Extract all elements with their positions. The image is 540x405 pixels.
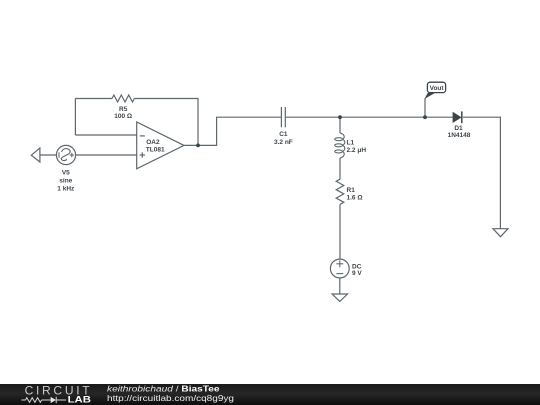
source VS plus bbox=[70, 154, 74, 156]
svg-text:1N4148: 1N4148 bbox=[448, 132, 471, 139]
wire (feedback left vertical) bbox=[74, 99, 76, 136]
resistor R1 bbox=[336, 179, 344, 204]
svg-text:LAB: LAB bbox=[68, 394, 92, 404]
wire (Vout stem) bbox=[424, 98, 426, 117]
wire (op-amp output) bbox=[184, 117, 281, 145]
svg-text:3.2 nF: 3.2 nF bbox=[274, 139, 293, 146]
wire (R1 to DC source) bbox=[339, 204, 341, 259]
op-amp minus bbox=[140, 135, 145, 137]
op-amp plus bbox=[140, 154, 145, 156]
source VS sine squiggle bbox=[61, 149, 70, 161]
source DC circle bbox=[330, 259, 349, 278]
diode D1 bbox=[453, 111, 462, 123]
wire (VS to op-amp +) bbox=[76, 154, 137, 156]
source VS minus tick bbox=[58, 152, 60, 157]
label OA2 bbox=[146, 139, 165, 153]
wire (C1 to diode anode) bbox=[285, 116, 452, 118]
wire (DC to ground) bbox=[339, 278, 341, 294]
label DC value bbox=[352, 264, 362, 278]
svg-text:100 Ω: 100 Ω bbox=[114, 113, 132, 120]
svg-text:http://circuitlab.com/cq8g9yg: http://circuitlab.com/cq8g9yg bbox=[107, 393, 234, 403]
source DC plus bbox=[336, 263, 343, 265]
wire (top to R5) bbox=[75, 98, 112, 100]
svg-text:9 V: 9 V bbox=[352, 270, 362, 277]
ground (under DC) bbox=[332, 294, 347, 301]
label R1 value bbox=[347, 187, 363, 202]
capacitor C1 plates bbox=[280, 107, 282, 127]
wire bbox=[40, 154, 57, 156]
junction node (Vout) bbox=[423, 115, 427, 119]
wire (R5 to feedback right vertical) bbox=[134, 99, 198, 146]
svg-text:V5: V5 bbox=[62, 169, 70, 176]
svg-text:OA2: OA2 bbox=[146, 139, 160, 146]
label R5 value bbox=[114, 106, 132, 120]
svg-text:keithrobichaud / BiasTee: keithrobichaud / BiasTee bbox=[107, 384, 220, 394]
source VS circle bbox=[56, 145, 75, 164]
svg-text:L1: L1 bbox=[347, 139, 355, 146]
resistor R5 bbox=[112, 95, 134, 102]
svg-text:Vout: Vout bbox=[430, 85, 445, 92]
wire (feedback lower) bbox=[75, 134, 136, 136]
inductor L1 bbox=[340, 133, 344, 139]
label V5 value bbox=[57, 169, 75, 192]
ground (right) bbox=[493, 229, 508, 237]
svg-text:sine: sine bbox=[59, 177, 72, 184]
svg-text:2.2 μH: 2.2 μH bbox=[347, 147, 367, 154]
logo mini resistor-diode bbox=[22, 397, 67, 404]
svg-text:TL081: TL081 bbox=[146, 146, 165, 153]
wire (diode cathode to right corner and down) bbox=[463, 117, 500, 228]
label C1 value bbox=[274, 131, 293, 146]
svg-text:C1: C1 bbox=[279, 131, 288, 138]
svg-text:R1: R1 bbox=[347, 187, 356, 194]
svg-text:1 kHz: 1 kHz bbox=[57, 186, 75, 193]
junction dot (op-amp output/feedback) bbox=[196, 144, 200, 148]
svg-text:D1: D1 bbox=[454, 125, 463, 132]
wire (junction down to L1) bbox=[339, 117, 341, 133]
junction node (L1 branch) bbox=[338, 115, 342, 119]
ground (input, rotated left) bbox=[31, 148, 40, 162]
svg-text:1.6 Ω: 1.6 Ω bbox=[347, 194, 363, 201]
wire (L1 to R1) bbox=[339, 158, 341, 179]
source DC minus bbox=[336, 273, 343, 275]
svg-text:R5: R5 bbox=[119, 106, 128, 113]
label D1 value bbox=[448, 125, 471, 139]
label L1 value bbox=[347, 139, 367, 154]
node Vout flag bbox=[424, 82, 445, 99]
footer bar bbox=[0, 384, 540, 405]
op-amp OA2 triangle bbox=[137, 122, 184, 169]
